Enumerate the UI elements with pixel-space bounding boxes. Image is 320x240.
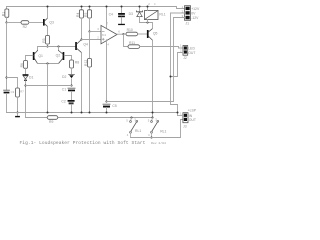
node R12 ground junction <box>89 112 91 114</box>
wire V- line to -12V column <box>107 101 174 103</box>
wire Q5 collector to coil junction <box>140 23 153 29</box>
connector J2 <box>180 43 195 59</box>
wire J2 pin2 to 0V column <box>171 53 184 77</box>
op-amp U1 <box>97 22 120 47</box>
wire +12V top rail <box>7 7 185 9</box>
svg-text:+12V: +12V <box>191 7 200 11</box>
resistor R8 <box>70 60 80 74</box>
diode D1 <box>23 74 34 117</box>
svg-text:R4: R4 <box>76 13 80 17</box>
relay contact B <box>148 118 167 138</box>
svg-text:-12V: -12V <box>191 16 199 20</box>
diode D2 <box>62 74 74 85</box>
node C3/R7 takeoff <box>6 77 8 79</box>
node C2 ground junction <box>71 112 73 114</box>
node C5 ground junction <box>106 112 108 114</box>
svg-text:R3: R3 <box>42 38 46 42</box>
svg-text:OUT: OUT <box>189 118 196 122</box>
node R1/R2/C3 junction <box>6 22 8 24</box>
capacitor C1 <box>62 88 75 100</box>
svg-text:R6: R6 <box>20 63 24 67</box>
wire op-amp minus input <box>82 39 102 41</box>
resistor R6 <box>20 61 28 75</box>
node R7 ground junction <box>17 112 19 114</box>
svg-text:C4: C4 <box>109 12 113 16</box>
transistor Q4 <box>75 40 88 53</box>
resistor R7 <box>16 88 25 113</box>
transistor Q1 <box>33 51 43 64</box>
wire J1 pin3 -12V column <box>174 18 185 102</box>
resistor R5 <box>84 7 92 32</box>
resistor R2 <box>21 21 29 30</box>
node tail ground junction <box>47 112 49 114</box>
svg-text:R7: R7 <box>20 90 24 94</box>
capacitor C3 <box>4 90 15 113</box>
wire tail column to ground rail <box>47 64 49 113</box>
wire ground rail <box>7 112 178 114</box>
svg-text:Q3: Q3 <box>49 21 54 25</box>
svg-text:R5: R5 <box>84 13 88 17</box>
node R5/op-amp plus input <box>89 31 91 33</box>
svg-text:J3: J3 <box>183 124 187 128</box>
svg-text:RL1: RL1 <box>160 130 166 134</box>
wire output to R11 <box>124 34 129 47</box>
node R3 bottom / tail junction <box>47 46 49 48</box>
transistor Q3 <box>43 18 54 26</box>
connector J1 <box>182 5 200 26</box>
wire collector bus Q1-Q2-Q4 base <box>38 47 76 51</box>
wire Q5 emitter column <box>152 40 154 117</box>
wire op-amp V+ pin to rail <box>106 7 108 28</box>
wire emitter bus <box>38 63 59 65</box>
svg-text:Q2: Q2 <box>56 53 61 57</box>
resistor R9 <box>47 116 58 124</box>
svg-text:R1: R1 <box>1 12 5 16</box>
capacitor C4 <box>109 7 125 26</box>
svg-text:Q4: Q4 <box>83 43 88 47</box>
resistor R4 <box>76 7 84 40</box>
svg-text:Rev 2/04: Rev 2/04 <box>151 141 166 145</box>
wire takeoff to R7 <box>7 78 18 89</box>
resistor R1 <box>1 7 8 23</box>
svg-text:C3: C3 <box>11 90 15 94</box>
wire op-amp plus input <box>90 31 102 33</box>
svg-text:R8: R8 <box>75 61 79 65</box>
svg-text:R12: R12 <box>84 60 88 66</box>
node output junction <box>123 33 125 35</box>
resistor R11 <box>128 41 183 48</box>
node contact A takeoff <box>131 117 133 119</box>
wire Q3 emitter to R3 <box>47 26 49 35</box>
node R4 rail junction <box>81 6 83 8</box>
node R5 rail junction <box>89 6 91 8</box>
svg-text:R11: R11 <box>129 41 135 45</box>
relay coil RL1 <box>145 2 166 23</box>
node 0V ground junction <box>177 112 179 114</box>
wire junction to R2 <box>7 22 22 24</box>
wire mute rail lower <box>26 117 153 119</box>
svg-text:RL1: RL1 <box>135 129 141 133</box>
relay contact A <box>126 118 141 138</box>
wire D1 junction to D2/C1 junction <box>26 85 72 87</box>
wire left column C3 branch <box>6 23 8 91</box>
capacitor C2 <box>61 100 74 113</box>
node relay coil / D3 / Q5 junction <box>147 22 149 24</box>
node J2 out / 0V junction <box>170 76 172 78</box>
svg-text:RL1: RL1 <box>159 13 165 17</box>
svg-text:C1: C1 <box>62 88 66 92</box>
resistor R3 <box>42 36 50 47</box>
transistor Q2 <box>56 51 65 64</box>
svg-text:R10: R10 <box>127 28 133 32</box>
node Q2 collector junction <box>58 46 60 48</box>
svg-text:R9: R9 <box>49 120 53 124</box>
svg-text:IC1: IC1 <box>102 33 107 37</box>
node V- / C5 junction <box>106 101 108 103</box>
wire Q2 collector drop <box>58 47 60 51</box>
node emitter tail junction <box>47 63 49 65</box>
connector J3 <box>180 108 197 128</box>
wire Q4 emitter column to ground rail <box>81 53 83 113</box>
wire contacts to J3 out <box>131 120 183 138</box>
node contact outputs join <box>151 137 153 139</box>
wire op-amp V- pin down <box>106 40 108 102</box>
ground symbol <box>15 113 20 118</box>
wire Q2 base to R8 <box>64 56 71 61</box>
wire Q1 base to R6 <box>26 56 33 61</box>
node relay coil top rail junction <box>147 6 149 8</box>
svg-text:0V: 0V <box>191 11 196 15</box>
node V+ rail junction <box>106 6 108 8</box>
svg-text:Q1: Q1 <box>38 54 43 58</box>
node D2/C1 junction <box>71 85 73 87</box>
svg-text:Q5: Q5 <box>153 31 158 35</box>
svg-text:Fig.1- Loudspeaker Protection: Fig.1- Loudspeaker Protection with Soft … <box>20 140 146 146</box>
svg-text:C5: C5 <box>112 104 116 108</box>
svg-text:R2: R2 <box>23 25 27 29</box>
wire ground rail to J3 pin1 <box>178 115 183 117</box>
capacitor C5 <box>103 104 117 113</box>
svg-text:D3: D3 <box>129 12 133 16</box>
svg-text:+LSP: +LSP <box>188 108 197 112</box>
resistor R12 <box>84 32 92 113</box>
node contact B takeoff <box>152 117 154 119</box>
resistor R10 <box>124 28 147 36</box>
node Q4 emitter ground junction <box>81 112 83 114</box>
wire op-amp output <box>117 33 124 35</box>
svg-text:C2: C2 <box>61 100 65 104</box>
wire J1 pin2 0V column <box>171 13 185 116</box>
node Q3 collector rail junction <box>47 6 49 8</box>
node Q5 emitter ground junction <box>152 112 154 114</box>
transistor Q5 <box>147 29 158 41</box>
node D1/C filter junction <box>25 85 27 87</box>
svg-text:D2: D2 <box>62 75 66 79</box>
svg-text:J2: J2 <box>183 56 187 60</box>
diode D3 <box>129 7 143 23</box>
wire Q3 collector to +12V rail <box>47 7 49 19</box>
svg-text:J1: J1 <box>185 22 189 26</box>
node D3 rail junction <box>139 6 141 8</box>
svg-text:D1: D1 <box>29 75 33 79</box>
wire R2 to Q3 base <box>29 22 43 24</box>
node C4 rail junction <box>121 6 123 8</box>
svg-text:OUT: OUT <box>188 51 195 55</box>
node R4/Q4 collector/op-amp minus input <box>81 39 83 41</box>
